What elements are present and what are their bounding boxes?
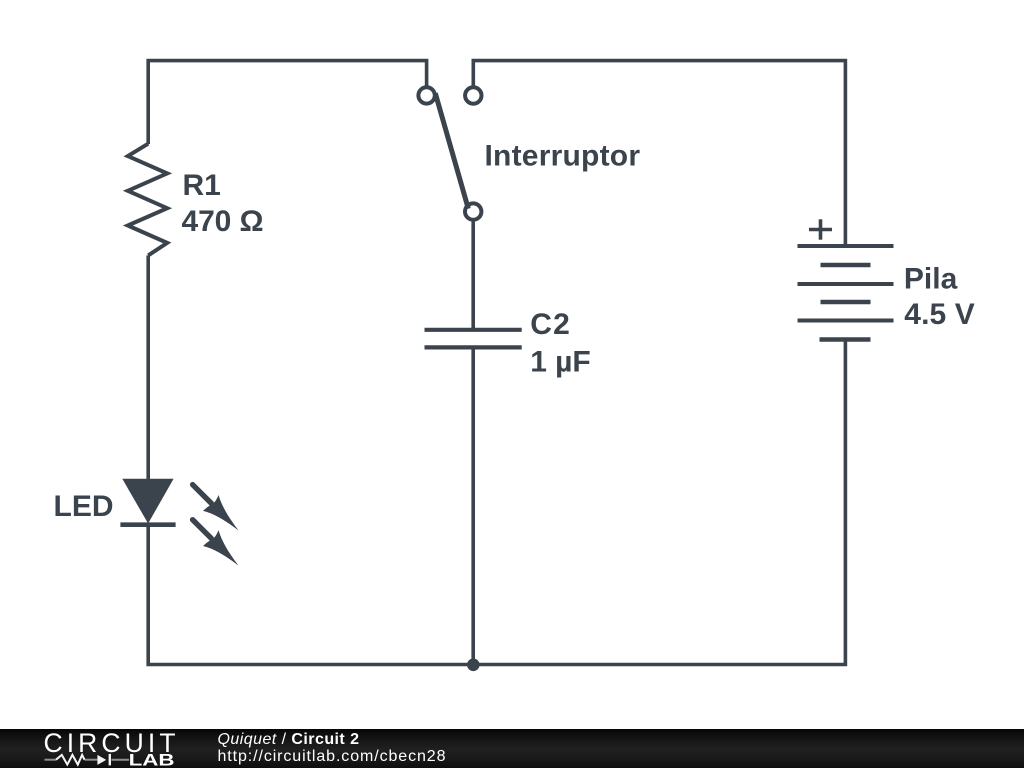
wire capacitor to bottom bbox=[471, 347, 475, 664]
footer bar bbox=[0, 729, 1024, 768]
logo resistor zigzag bbox=[56, 755, 85, 765]
wire resistor to LED bbox=[146, 255, 150, 479]
footer url line bbox=[218, 749, 447, 765]
svg-text:LAB: LAB bbox=[129, 751, 175, 768]
switch J1 left contact circle bbox=[418, 87, 434, 103]
wire bottom rail bbox=[148, 340, 845, 665]
switch J1 right contact circle bbox=[465, 87, 481, 103]
logo diode bar bbox=[109, 754, 111, 766]
switch J1 lower contact circle bbox=[465, 203, 481, 219]
wire switch to capacitor bbox=[471, 220, 475, 328]
wire top left segment bbox=[148, 61, 426, 144]
LED D1 cathode bar bbox=[120, 522, 175, 527]
wire top right segment bbox=[473, 61, 845, 246]
LED D1 emission arrow 2 bbox=[193, 520, 239, 566]
footer title line bbox=[218, 732, 360, 748]
resistor R1 bbox=[128, 144, 167, 256]
battery V1 plates bbox=[798, 246, 894, 340]
logo diode triangle bbox=[97, 755, 106, 765]
junction node dot bbox=[467, 659, 480, 672]
capacitor C2 top plate bbox=[425, 328, 522, 332]
battery V1 plus sign bbox=[809, 219, 832, 239]
LED D1 emission arrow 1 bbox=[193, 485, 239, 531]
LED D1 triangle bbox=[122, 479, 173, 524]
switch J1 blade bbox=[435, 93, 468, 209]
capacitor C2 bottom plate bbox=[425, 345, 522, 349]
logo wire gray segments bbox=[45, 759, 130, 761]
